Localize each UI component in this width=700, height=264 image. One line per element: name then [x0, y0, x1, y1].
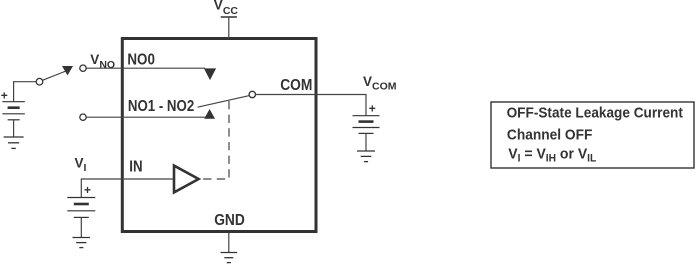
terminal NO1-NO2 circle: [80, 114, 86, 120]
svg-text:VCOM: VCOM: [363, 74, 397, 93]
wire NO1-NO2: [86, 116, 207, 118]
svg-text:NO1 - NO2: NO1 - NO2: [128, 98, 194, 115]
wire battery VNO to ground: [13, 120, 15, 137]
svg-text:NO0: NO0: [127, 51, 154, 68]
ground for VCOM battery: [357, 151, 375, 162]
wire VI to buffer input: [81, 179, 173, 198]
ground for VI battery: [73, 238, 91, 248]
power VCC bar: [221, 16, 237, 18]
source switch blade: [42, 71, 66, 80]
internal switch pole circle COM: [249, 91, 255, 97]
internal switch blade to COM: [198, 96, 250, 108]
svg-text:VI: VI: [75, 156, 87, 174]
wire COM to VCOM battery: [256, 95, 367, 116]
svg-text:VI = VIH or VIL: VI = VIH or VIL: [508, 145, 596, 164]
contact arrow NO1-NO2: [204, 109, 215, 119]
svg-text:IN: IN: [129, 159, 142, 176]
svg-text:VCC: VCC: [214, 0, 239, 17]
svg-text:COM: COM: [280, 77, 312, 94]
battery VI plates: [67, 198, 95, 218]
wire battery VI to ground: [80, 217, 82, 237]
wire VCC to box: [228, 17, 230, 39]
wire switch to battery VNO: [14, 82, 37, 102]
svg-text:Channel OFF: Channel OFF: [507, 126, 593, 143]
buffer U1: [174, 166, 199, 193]
wire battery VCOM to ground: [365, 133, 367, 151]
battery VNO plates: [2, 102, 24, 120]
device under test box: [122, 39, 316, 232]
svg-text:GND: GND: [214, 212, 245, 229]
svg-text:+: +: [369, 101, 376, 115]
terminal VNO circle: [80, 65, 86, 71]
battery VCOM plates: [353, 116, 380, 134]
source switch arrowhead: [62, 66, 73, 75]
ground for VNO battery: [4, 137, 24, 148]
wire GND: [228, 233, 230, 253]
note box border: [491, 102, 694, 168]
svg-text:+: +: [84, 183, 91, 197]
source switch pole circle: [36, 78, 43, 85]
dashed control line buffer to switch: [203, 101, 229, 179]
svg-text:OFF-State Leakage Current: OFF-State Leakage Current: [507, 104, 683, 121]
ground for GND pin: [221, 253, 238, 263]
contact arrow NO0: [204, 68, 216, 80]
wire NO0: [86, 67, 205, 69]
svg-text:+: +: [1, 89, 8, 103]
